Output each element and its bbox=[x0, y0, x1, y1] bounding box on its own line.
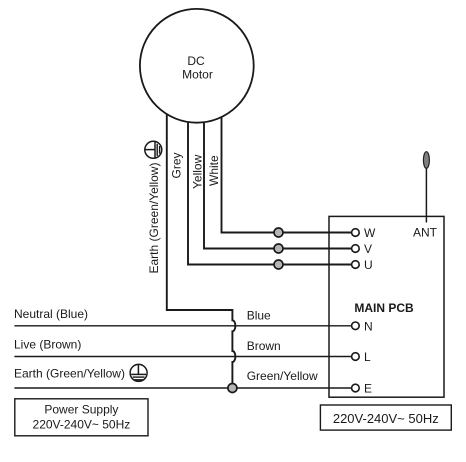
svg-text:Green/Yellow: Green/Yellow bbox=[247, 369, 318, 383]
svg-text:220V-240V~ 50Hz: 220V-240V~ 50Hz bbox=[333, 411, 439, 426]
terminal U bbox=[352, 261, 360, 269]
wire: white lead (to W) bbox=[222, 114, 352, 233]
junction dot earth bbox=[228, 384, 237, 393]
DC motor M1 bbox=[140, 9, 254, 123]
wire: earth supply line bbox=[14, 387, 351, 389]
svg-text:Brown: Brown bbox=[247, 339, 281, 353]
wire: yellow lead (to V) bbox=[204, 118, 351, 249]
svg-text:ANT: ANT bbox=[413, 226, 438, 240]
power supply box bbox=[15, 399, 148, 436]
svg-text:Earth (Green/Yellow): Earth (Green/Yellow) bbox=[147, 163, 161, 274]
junction dot on W row bbox=[274, 228, 283, 237]
svg-text:Grey: Grey bbox=[169, 152, 183, 178]
earth symbol on motor lead (rotated) bbox=[145, 141, 162, 158]
junction dot on V row bbox=[274, 244, 283, 253]
terminal N bbox=[352, 322, 360, 330]
wire: live supply line bbox=[14, 356, 351, 358]
wire: motor earth lead (green/yellow) bbox=[167, 112, 236, 388]
MAIN PCB box bbox=[329, 216, 444, 397]
junction dot on U row bbox=[274, 260, 283, 269]
svg-text:220V-240V~ 50Hz: 220V-240V~ 50Hz bbox=[33, 418, 131, 432]
terminal W bbox=[352, 229, 360, 237]
svg-text:N: N bbox=[364, 319, 373, 333]
wire: neutral supply line bbox=[14, 325, 351, 327]
terminal L bbox=[352, 353, 360, 361]
terminal V bbox=[352, 245, 360, 253]
svg-text:Live (Brown): Live (Brown) bbox=[14, 338, 81, 352]
svg-text:Earth (Green/Yellow): Earth (Green/Yellow) bbox=[14, 367, 125, 381]
rating box 220V-240V~ 50Hz bbox=[320, 405, 451, 430]
earth symbol on supply earth line bbox=[130, 364, 147, 381]
svg-text:Neutral (Blue): Neutral (Blue) bbox=[14, 307, 88, 321]
svg-text:U: U bbox=[364, 258, 373, 272]
svg-text:E: E bbox=[364, 382, 372, 396]
svg-text:L: L bbox=[364, 350, 371, 364]
svg-text:MAIN PCB: MAIN PCB bbox=[354, 301, 414, 315]
svg-text:Motor: Motor bbox=[182, 67, 213, 81]
antenna ANT bbox=[425, 166, 427, 223]
terminal E bbox=[352, 384, 360, 392]
svg-text:White: White bbox=[207, 155, 221, 186]
svg-text:Yellow: Yellow bbox=[191, 154, 205, 189]
svg-text:DC: DC bbox=[187, 54, 205, 68]
svg-text:Power Supply: Power Supply bbox=[44, 403, 118, 417]
svg-text:Blue: Blue bbox=[247, 309, 271, 323]
svg-text:W: W bbox=[364, 226, 376, 240]
wire: grey lead (to U) bbox=[188, 118, 351, 265]
svg-text:V: V bbox=[364, 242, 372, 256]
